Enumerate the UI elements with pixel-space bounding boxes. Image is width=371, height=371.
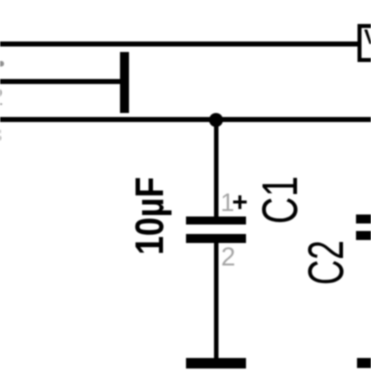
svg-text:10µF: 10µF (126, 177, 171, 255)
svg-text:2: 2 (0, 84, 3, 111)
svg-text:2: 2 (221, 242, 235, 272)
svg-text:3: 3 (0, 125, 2, 147)
svg-text:+: + (232, 187, 248, 217)
svg-text:V: V (364, 26, 371, 49)
svg-text:C1: C1 (253, 176, 308, 224)
svg-text:C2: C2 (299, 240, 355, 285)
